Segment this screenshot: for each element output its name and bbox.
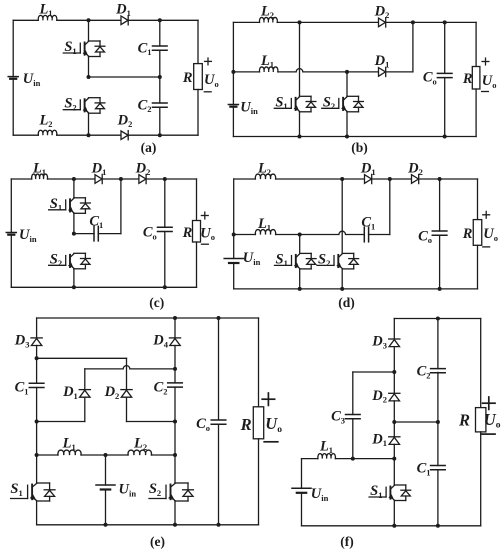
wire S1 emitter leg [393, 501, 395, 526]
wire C1 top lead [36, 358, 38, 383]
diode D2 [135, 160, 151, 183]
wire Co top lead [218, 318, 220, 420]
junction node [345, 70, 349, 74]
inductor L1 [318, 438, 336, 458]
wire top rail [146, 178, 196, 180]
wire D3 anode lead [393, 347, 395, 372]
junction node [87, 133, 91, 137]
wire [277, 21, 378, 23]
wire left rail lower [12, 79, 14, 135]
capacitor Co [143, 225, 172, 242]
wire C1 top lead [437, 422, 439, 466]
inductor L1 [259, 53, 278, 72]
wire C1-C2 link [159, 50, 161, 103]
svg-text:R: R [182, 70, 193, 86]
junction node [298, 20, 302, 24]
voltage source Uin (battery) [292, 486, 329, 503]
junction node [35, 453, 39, 457]
output voltage label Uo with polarity [483, 211, 498, 247]
wire C1 riser to D1-D2 node [120, 179, 122, 234]
wire bottom rail [37, 524, 259, 526]
wire left rail lower [232, 107, 234, 137]
capacitor C2 [138, 97, 168, 114]
output voltage label Uo with polarity [481, 397, 500, 434]
junction node [392, 370, 396, 374]
wire [233, 71, 259, 73]
junction node [436, 420, 440, 424]
junction node [438, 177, 442, 181]
wire S2 collector leg [174, 455, 176, 483]
wire bottom rail to output [128, 134, 198, 136]
junction node [173, 316, 177, 320]
resistor R (load) [462, 220, 482, 246]
capacitor Co [418, 228, 447, 245]
wire D1 anode lead [84, 397, 86, 421]
wire Co bottom lead [164, 232, 166, 288]
wire D1 to top rail riser [412, 22, 414, 72]
inductor L1 [255, 216, 275, 235]
wire C1 to riser [98, 233, 121, 235]
svg-text:R: R [240, 415, 252, 434]
wire D1 cathode riser [84, 369, 86, 390]
wire S1 emitter leg [299, 269, 301, 289]
capacitor Co [423, 70, 452, 87]
wire output rail lower [197, 90, 199, 136]
junction node [392, 524, 396, 528]
wire Co top lead [164, 179, 166, 227]
wire source top lead [105, 455, 107, 485]
junction node [443, 135, 447, 139]
wire S2 collector leg [346, 72, 348, 96]
wire [13, 19, 38, 21]
switch S1 (IGBT with anti-parallel diode) [63, 39, 105, 57]
output voltage label Uo with polarity [204, 58, 219, 92]
wire output rail upper [258, 318, 260, 407]
diode D2 [117, 112, 133, 140]
wire S1 collector leg [393, 459, 395, 485]
junction node [163, 285, 167, 289]
wire top rail [37, 317, 259, 319]
wire source bottom lead [301, 493, 303, 526]
wire C2 bottom lead [437, 372, 439, 422]
junction node [217, 316, 221, 320]
junction node [351, 457, 355, 461]
wire [11, 178, 31, 180]
wire riser to D1-D2 node [389, 179, 391, 235]
wire D3 cathode lead [393, 319, 395, 340]
wire S2 emitter leg [341, 269, 343, 289]
wire [302, 458, 318, 460]
switch S1 (IGBT with anti-parallel diode) [274, 94, 316, 112]
wire between L1 and L2 [81, 454, 128, 456]
wire D2-D1 node to capacitor column [394, 421, 438, 423]
output voltage label Uo with polarity [482, 58, 497, 91]
wire D1 anode to left column [37, 421, 85, 423]
capacitor C3 [331, 409, 360, 426]
junction node [231, 70, 235, 74]
wire left column link [36, 422, 38, 456]
voltage source Uin (battery) [224, 250, 260, 267]
diode D1 [360, 160, 376, 183]
wire C2 top lead [174, 369, 176, 383]
capacitor Co [196, 416, 226, 433]
resistor R (load) [182, 221, 201, 243]
wire [102, 178, 139, 180]
wire bottom rail [11, 286, 196, 288]
output voltage label Uo with polarity [262, 393, 282, 442]
resistor R (load) [182, 64, 202, 90]
wire output rail lower [480, 432, 482, 526]
svg-text:(e): (e) [150, 534, 165, 549]
output voltage label Uo with polarity [200, 212, 215, 244]
wire output rail lower [477, 245, 479, 289]
wire C1 top lead [159, 20, 161, 46]
wire top rail to output [128, 19, 198, 21]
resistor R (load) [240, 407, 264, 439]
junction node [158, 75, 162, 79]
wire D4 cathode lead [174, 318, 176, 338]
junction node [232, 233, 236, 237]
wire [57, 19, 121, 21]
wire D3-D2 node to C3 [353, 371, 395, 373]
junction node [87, 75, 91, 79]
resistor R (load) [458, 408, 486, 432]
wire node A to D2 riser [37, 357, 127, 359]
wire Co bottom lead [439, 235, 441, 289]
wire output rail upper [480, 319, 482, 408]
capacitor C2 [154, 380, 183, 397]
diode D2 [371, 388, 400, 405]
diode D1 [91, 160, 107, 183]
inductor L1 [58, 435, 81, 455]
inductor L1 [38, 1, 57, 20]
wire [234, 234, 256, 236]
capacitor C1 [361, 215, 375, 242]
wire L1 to main column [335, 458, 394, 460]
junction node [72, 177, 76, 181]
junction node [298, 287, 302, 291]
capacitor C1 [138, 40, 168, 57]
svg-text:R: R [462, 71, 473, 87]
wire Co top lead [444, 22, 446, 73]
wire D3 anode lead [36, 346, 38, 359]
wire D2 cathode riser [126, 358, 128, 389]
wire S1-S2 midpoint [73, 213, 75, 233]
junction node [411, 20, 415, 24]
junction node [217, 523, 221, 527]
junction node [35, 420, 39, 424]
junction node [158, 133, 162, 137]
junction node [163, 177, 167, 181]
diode D2 [407, 160, 423, 183]
wire C1 bottom lead [36, 388, 38, 422]
wire left rail lower [233, 263, 235, 289]
diode D3 [371, 334, 400, 351]
wire Co bottom lead [444, 78, 446, 137]
junction node [436, 524, 440, 528]
wire D1 cathode lead [393, 422, 395, 437]
junction node [158, 18, 162, 22]
wire S1 emitter leg [299, 112, 301, 137]
junction node [388, 177, 392, 181]
junction node [173, 523, 177, 527]
diode D2 [104, 384, 133, 401]
svg-text:(c): (c) [149, 295, 164, 310]
svg-text:(f): (f) [340, 534, 354, 549]
diode D3 [14, 333, 42, 350]
inductor L1 [32, 160, 48, 179]
wire [57, 134, 121, 136]
wire S1 collector [73, 179, 75, 198]
wire bottom rail [233, 136, 476, 138]
junction node [298, 135, 302, 139]
wire C1 to riser [369, 234, 390, 236]
wire top rail [394, 318, 480, 320]
capacitor C1 [89, 213, 103, 241]
wire S1 collector [88, 20, 90, 41]
wire S2 emitter [73, 269, 75, 288]
diode D2 [374, 3, 390, 27]
wire left rail upper [12, 20, 14, 76]
wire midpoint link [89, 76, 160, 78]
junction node [443, 20, 447, 24]
junction node [340, 177, 344, 181]
wire [372, 178, 412, 180]
junction node [173, 367, 177, 371]
wire D4 anode lead [174, 346, 176, 369]
junction node [173, 453, 177, 457]
junction node [173, 420, 177, 424]
diode D1 [115, 1, 131, 25]
junction node [119, 177, 123, 181]
wire S1 collector leg [299, 235, 301, 254]
wire midpoint to C1 [74, 233, 94, 235]
diode D1 [371, 431, 400, 448]
junction node [438, 287, 442, 291]
wire S2 emitter leg [174, 501, 176, 525]
wire left rail upper [233, 179, 235, 259]
voltage source Uin (battery) [6, 227, 37, 244]
wire S2 emitter [88, 113, 90, 135]
wire output rail upper [196, 179, 198, 221]
wire D2 anode lead [126, 397, 128, 421]
wire right column link [174, 422, 176, 456]
junction node [436, 317, 440, 321]
wire top rail [386, 21, 476, 23]
switch S2 (IGBT with anti-parallel diode) [49, 251, 91, 269]
voltage source Uin (battery) [8, 71, 40, 88]
wire [233, 21, 259, 23]
wire [13, 134, 38, 136]
wire output rail upper [475, 22, 477, 66]
wire Co top lead [439, 179, 441, 231]
inductor L2 [255, 160, 275, 179]
wire D2 anode to right column [127, 421, 176, 423]
junction node [72, 232, 76, 236]
svg-text:R: R [458, 410, 470, 429]
wire L1 line hopping over S1 leg [278, 69, 379, 72]
wire node B link hopping over D2 riser [85, 366, 175, 369]
wire D2 cathode lead [393, 372, 395, 393]
wire output rail lower [196, 242, 198, 287]
wire S2 emitter leg [346, 112, 348, 137]
junction node [87, 18, 91, 22]
junction node [345, 135, 349, 139]
wire C3 top lead [352, 372, 354, 415]
inductor L2 [38, 112, 57, 135]
resistor R (load) [462, 67, 480, 90]
wire D3 cathode lead [36, 318, 38, 338]
wire source bottom lead [105, 490, 107, 525]
switch S1 (IGBT with anti-parallel diode) [369, 483, 411, 501]
wire [234, 178, 256, 180]
diode D1 [62, 384, 90, 401]
wire S2 collector leg [341, 179, 343, 253]
voltage source Uin (battery) [228, 99, 258, 116]
wire L1 line hopping over S2 leg [276, 231, 365, 234]
switch S2 (IGBT with anti-parallel diode) [317, 251, 359, 269]
switch S1 (IGBT with anti-parallel diode) [49, 196, 91, 214]
wire S1 collector leg [299, 22, 301, 96]
wire top rail [419, 178, 478, 180]
wire [48, 178, 96, 180]
inductor L2 [259, 3, 277, 22]
wire [37, 454, 58, 456]
wire bottom rail [302, 525, 481, 527]
wire S1 emitter to midpoint [88, 57, 90, 78]
voltage source Uin (battery) [96, 482, 136, 499]
wire left rail upper [232, 22, 234, 104]
wire C3 bottom lead [352, 419, 354, 459]
wire output rail upper [197, 20, 199, 63]
wire left rail lower [10, 235, 12, 288]
wire L2 to right column [151, 454, 175, 456]
diode D1 [374, 53, 390, 77]
wire C2 bottom lead [174, 387, 176, 421]
wire [276, 178, 365, 180]
junction node [72, 285, 76, 289]
capacitor C1 [417, 461, 446, 478]
diode D4 [152, 333, 180, 350]
capacitor C2 [417, 364, 446, 381]
wire output rail lower [475, 89, 477, 137]
wire C1 bottom lead [437, 470, 439, 526]
svg-text:(d): (d) [338, 295, 355, 310]
switch S2 (IGBT with anti-parallel diode) [149, 481, 194, 501]
wire D1 cathode link [386, 71, 413, 73]
svg-text:(b): (b) [351, 140, 368, 155]
svg-text:(a): (a) [141, 140, 157, 155]
junction node [392, 457, 396, 461]
switch S1 (IGBT with anti-parallel diode) [275, 251, 317, 269]
wire output rail lower [258, 439, 260, 525]
wire C2 top lead [437, 319, 439, 369]
wire left rail upper [10, 179, 12, 233]
junction node [35, 356, 39, 360]
wire S1 emitter leg [36, 501, 38, 525]
wire Co bottom lead [218, 424, 220, 525]
junction node [392, 420, 396, 424]
svg-text:R: R [182, 225, 193, 241]
wire output rail upper [477, 179, 479, 220]
junction node [104, 523, 108, 527]
junction node [104, 453, 108, 457]
switch S2 (IGBT with anti-parallel diode) [63, 96, 105, 114]
wire source top lead [301, 459, 303, 489]
wire D1 anode lead [393, 444, 395, 458]
wire C2 bottom lead [159, 107, 161, 135]
svg-text:R: R [462, 226, 473, 242]
junction node [340, 287, 344, 291]
junction node [298, 233, 302, 237]
wire bottom rail [234, 288, 478, 290]
inductor L2 [128, 435, 152, 455]
capacitor C1 [15, 380, 44, 397]
switch S2 (IGBT with anti-parallel diode) [322, 94, 364, 112]
wire D2 anode lead [393, 401, 395, 422]
switch S1 (IGBT with anti-parallel diode) [10, 481, 55, 501]
wire S1 collector leg [36, 455, 38, 483]
